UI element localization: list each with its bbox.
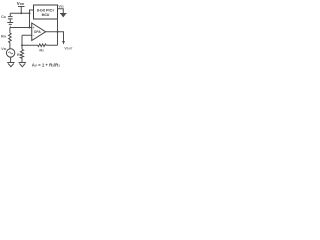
ground below R1 — [19, 63, 26, 67]
capacitor CB label — [1, 14, 6, 19]
capacitor CB — [8, 17, 13, 19]
svg-text:MCU: MCU — [42, 13, 50, 17]
wire inverting down — [21, 35, 23, 45]
svg-text:VDD: VDD — [17, 1, 25, 6]
wire R1 top — [21, 45, 23, 49]
ground below VIN — [7, 63, 14, 67]
svg-text:CB: CB — [1, 14, 6, 19]
svg-text:VIN: VIN — [1, 47, 6, 51]
wire VOUT tap — [58, 32, 64, 42]
wire inverting input — [22, 34, 32, 36]
wire feedback right — [46, 44, 57, 46]
op-amp plus input mark — [33, 26, 35, 30]
wire below source — [10, 57, 12, 62]
source VIN label — [1, 47, 6, 51]
wire output — [46, 31, 58, 33]
svg-text:R2: R2 — [39, 48, 44, 53]
svg-text:−: − — [33, 34, 35, 38]
svg-text:+: + — [33, 26, 35, 30]
resistor R1 label — [17, 53, 22, 57]
node VOUT label — [64, 46, 72, 50]
wire MCU VDD pin — [30, 10, 34, 28]
arrow VOUT — [62, 41, 65, 45]
ground below CB — [7, 23, 13, 27]
junction output node — [57, 31, 59, 33]
resistor RIN — [9, 33, 12, 43]
svg-text:8-bit PIC®: 8-bit PIC® — [37, 9, 54, 13]
svg-text:AV = 1 + R2/R1: AV = 1 + R2/R1 — [32, 63, 60, 68]
svg-text:OPA: OPA — [34, 30, 42, 34]
wire cap top — [9, 13, 11, 16]
source VIN circle — [6, 49, 14, 57]
op-amp minus input mark — [33, 34, 35, 38]
wire input corner — [9, 28, 11, 34]
svg-text:VSS: VSS — [59, 5, 65, 9]
wire feedback left — [22, 44, 38, 46]
wire VSS pin — [58, 9, 64, 14]
ground VSS — [60, 13, 67, 15]
junction noninverting input — [29, 27, 31, 29]
wire VDD rail — [10, 12, 29, 14]
op-amp U2 — [32, 23, 46, 41]
resistor R2 label — [39, 48, 44, 53]
resistor R2 — [38, 44, 46, 47]
junction VDD rail — [20, 12, 22, 14]
source sine — [8, 52, 12, 54]
junction rail to MCU pin — [29, 12, 31, 14]
svg-text:R1: R1 — [17, 53, 22, 57]
op-amp label OPA — [34, 30, 42, 34]
wire cap bottom — [9, 19, 11, 23]
resistor RIN label — [1, 35, 6, 39]
junction feedback node — [21, 44, 23, 46]
MCU text — [37, 9, 54, 18]
svg-text:VOUT: VOUT — [64, 46, 72, 50]
power VDD symbol — [18, 7, 25, 14]
resistor R1 — [20, 49, 23, 58]
wire to source — [9, 43, 11, 49]
wire R1 bottom — [21, 58, 23, 62]
wire ADC column — [57, 19, 59, 45]
svg-text:RIN: RIN — [1, 35, 6, 39]
wire noninverting input — [10, 27, 32, 29]
node VSS label — [59, 5, 65, 9]
formula gain — [32, 63, 60, 68]
MCU box U1 — [34, 5, 58, 19]
node VDD label — [17, 1, 25, 6]
